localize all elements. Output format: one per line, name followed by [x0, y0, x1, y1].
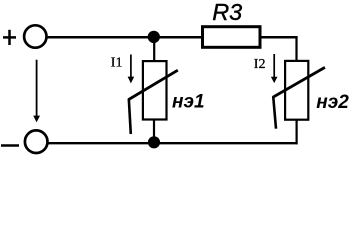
svg-text:I2: I2: [254, 57, 266, 72]
svg-text:нэ1: нэ1: [172, 92, 205, 113]
svg-text:R3: R3: [212, 0, 242, 25]
svg-text:I1: I1: [111, 56, 123, 71]
svg-text:нэ2: нэ2: [316, 92, 349, 113]
